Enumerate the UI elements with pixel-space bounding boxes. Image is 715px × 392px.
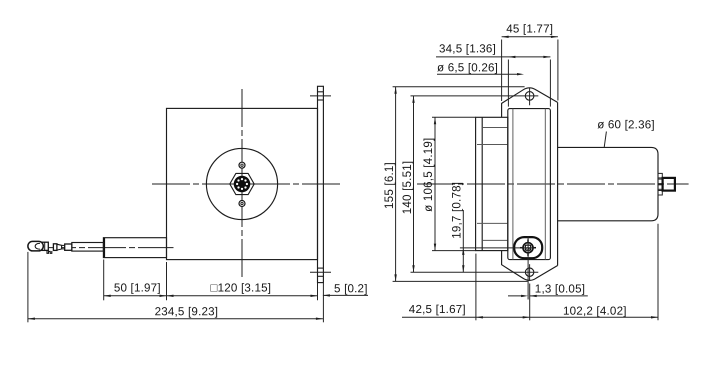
cable end cylinder	[72, 243, 104, 252]
taper piece	[57, 244, 62, 250]
flange mounting hole (bottom, hidden edges)	[318, 268, 324, 276]
dimension line 50/120 chain	[104, 295, 318, 297]
screw upper	[239, 162, 245, 168]
dimension extension line: eyelet tip	[27, 252, 29, 322]
svg-text:1,3 [0.05]: 1,3 [0.05]	[535, 283, 585, 296]
centerline segments over bezel	[230, 183, 254, 185]
flange right edge	[557, 102, 559, 265]
ø60 cylinder body	[558, 147, 658, 220]
vertical centerline	[241, 89, 243, 279]
dim ø106,5 vertical	[434, 117, 436, 250]
wire rope cross-section	[525, 245, 530, 250]
svg-text:45 [1.77]: 45 [1.77]	[506, 22, 553, 35]
dim 1,3	[508, 295, 524, 297]
screw lower	[239, 201, 245, 207]
svg-text:ø 106,5 [4.19]: ø 106,5 [4.19]	[422, 138, 435, 212]
dimension extension line: square left	[166, 262, 168, 300]
dim 155 vertical	[395, 87, 397, 282]
connector thread ribs	[658, 173, 662, 195]
dim 102,2	[530, 316, 658, 318]
square body rounded-corner tangent lines	[513, 109, 545, 260]
flange mounting hole (top, hidden edges)	[318, 92, 324, 100]
housing square body front face	[167, 108, 318, 259]
connector face (dark) with pins	[234, 176, 251, 193]
dim 45	[502, 36, 558, 38]
main axis centerline	[417, 183, 689, 185]
svg-text:□120 [3.15]: □120 [3.15]	[210, 281, 271, 294]
cable outlet bushing (side, bold)	[514, 237, 542, 258]
arrows on 50/120 chain	[104, 295, 111, 297]
dim ø6,5 leader	[437, 73, 520, 75]
dim 140 vertical	[413, 96, 415, 272]
bushing axis extension (19,7 upper ext)	[460, 247, 535, 249]
dim 34,5	[436, 56, 550, 58]
cable outlet bushing	[103, 238, 166, 258]
crimp sleeve	[65, 244, 72, 250]
dim 19,7 vertical	[462, 210, 464, 272]
svg-text:155 [6.1]: 155 [6.1]	[383, 162, 396, 209]
bushing bore circle	[523, 243, 533, 253]
connector nut	[663, 178, 675, 191]
flange plate edge-on (right of square)	[318, 86, 324, 282]
dim 42,5	[402, 316, 530, 318]
svg-text:ø 60 [2.36]: ø 60 [2.36]	[597, 118, 655, 131]
drum edge lines	[477, 128, 508, 241]
bushing bold left face	[103, 238, 105, 258]
svg-text:5 [0.2]: 5 [0.2]	[334, 282, 368, 295]
top mounting hole	[525, 92, 534, 101]
drum cover circle	[206, 148, 277, 219]
bottom mounting hole	[525, 268, 533, 276]
horizontal centerline	[152, 183, 341, 185]
dim ø60 leader	[604, 132, 606, 148]
dimension extension line: flange left face	[317, 283, 319, 301]
eyelet collar block	[42, 242, 48, 250]
dimension extension line: flange right face	[322, 283, 324, 323]
dimension 5 leader	[323, 294, 368, 296]
hole centerline bottom	[310, 271, 331, 273]
hole centerline top	[310, 95, 331, 97]
cable centerline	[38, 247, 174, 249]
drum housing	[476, 117, 508, 250]
1,3 / 42,5 extension line (hole plane)	[529, 284, 531, 321]
rod between sleeve and taper	[62, 245, 65, 249]
square body edge-on	[508, 109, 551, 260]
svg-text:102,2 [4.02]: 102,2 [4.02]	[563, 305, 627, 318]
drum back step	[481, 117, 483, 250]
connector hex bezel	[230, 173, 254, 194]
eyelet inner opening	[35, 243, 40, 249]
bushing crosshair vertical	[527, 236, 529, 262]
svg-text:34,5 [1.36]: 34,5 [1.36]	[439, 42, 496, 55]
svg-text:234,5 [9.23]: 234,5 [9.23]	[155, 305, 219, 318]
svg-text:42,5 [1.67]: 42,5 [1.67]	[409, 303, 466, 316]
flange plate outline top (house peak)	[502, 88, 558, 117]
svg-text:ø 6,5 [0.26]: ø 6,5 [0.26]	[437, 61, 498, 74]
flange plate outline bottom	[502, 251, 558, 281]
dimension extension line: bushing end	[103, 260, 105, 301]
eyelet loop	[28, 241, 43, 251]
1,3 extension line (bushing plane)	[527, 262, 529, 300]
clamp collar	[53, 244, 57, 251]
clip spring hooks under collar	[47, 251, 52, 254]
svg-text:50 [1.97]: 50 [1.97]	[114, 281, 161, 294]
svg-text:19,7 [0.78]: 19,7 [0.78]	[451, 182, 464, 239]
dimension line 234,5	[28, 318, 323, 320]
svg-text:140 [5.51]: 140 [5.51]	[401, 161, 414, 215]
bore crosshair ticks	[520, 240, 536, 256]
